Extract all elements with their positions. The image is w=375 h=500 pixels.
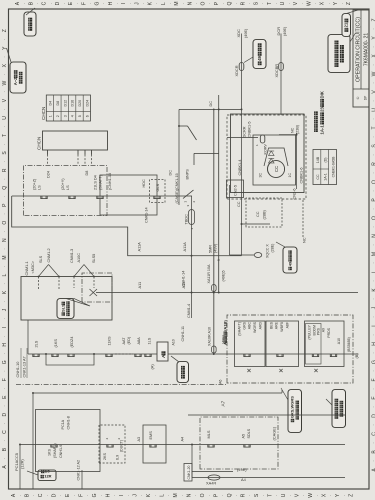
svg-text:A4: A4 <box>241 477 247 482</box>
dashed leads in SLS box <box>38 277 40 291</box>
svg-text:CNK1-12 A2: CNK1-12 A2 <box>77 460 81 481</box>
svg-text:MLS: MLS <box>206 430 211 438</box>
svg-text:(49V): (49V) <box>214 243 218 253</box>
chain boundary left group <box>16 384 227 386</box>
CHCN pin stubs <box>47 150 49 155</box>
svg-text:·: · <box>234 495 239 496</box>
svg-text:DC: DC <box>209 101 213 107</box>
svg-text:H: H <box>2 343 8 347</box>
svg-text:·: · <box>126 495 131 496</box>
svg-text:·: · <box>371 442 375 443</box>
wire XDC exit <box>241 34 243 256</box>
callout GRS WGRS note <box>288 390 302 433</box>
svg-text:R: R <box>372 162 375 166</box>
svg-text:D20: D20 <box>78 100 82 107</box>
callout SLS note <box>57 299 74 319</box>
svg-text:M: M <box>174 2 180 6</box>
svg-text:·: · <box>2 370 7 371</box>
svg-text:·: · <box>301 495 306 496</box>
svg-text:G: G <box>372 360 375 364</box>
wire 179 to coil <box>178 109 180 205</box>
chain wire left <box>20 444 345 446</box>
svg-text:CNH1-10: CNH1-10 <box>16 362 20 378</box>
svg-text:1A-1: 1A-1 <box>324 173 328 181</box>
wire vertical 244 <box>192 255 242 257</box>
svg-text:A5: A5 <box>242 434 246 439</box>
svg-text:Z: Z <box>372 18 375 21</box>
svg-text:A7: A7 <box>221 400 226 406</box>
switch 11KS <box>106 354 112 357</box>
svg-text:1KS: 1KS <box>48 448 52 456</box>
svg-text:B: B <box>28 1 34 5</box>
svg-text:F: F <box>81 2 87 5</box>
svg-text:2: 2 <box>56 115 60 117</box>
svg-text:Z: Z <box>346 2 352 5</box>
svg-text:O: O <box>200 493 206 497</box>
wire CN2 feed <box>229 185 231 255</box>
svg-text:ARD: ARD <box>259 322 263 330</box>
box EMS <box>143 425 166 463</box>
svg-text:Q: Q <box>227 493 233 497</box>
svg-text:E: E <box>2 395 8 399</box>
svg-text:A: A <box>11 493 17 497</box>
svg-text:D: D <box>55 1 61 5</box>
svg-text:·: · <box>62 3 67 4</box>
svg-text:·: · <box>2 301 7 302</box>
svg-text:M: M <box>2 256 8 260</box>
svg-text:·: · <box>207 3 212 4</box>
svg-text:Z: Z <box>2 29 8 32</box>
svg-text:·: · <box>287 3 292 4</box>
svg-text:·: · <box>2 196 7 197</box>
svg-text:Y: Y <box>333 1 339 5</box>
svg-text:M: M <box>372 252 375 256</box>
svg-text:P: P <box>213 493 219 497</box>
svg-text:X: X <box>372 54 375 58</box>
svg-text:1: 1 <box>255 144 259 146</box>
svg-text:·: · <box>101 3 106 4</box>
svg-text:·: · <box>2 458 7 459</box>
svg-text:·: · <box>315 495 320 496</box>
svg-text:P: P <box>2 203 8 207</box>
limit switch 21LS D4 SHAFT <box>97 196 103 199</box>
svg-text:·: · <box>371 298 375 299</box>
svg-text:23: 23 <box>319 107 324 112</box>
svg-text:ABC: ABC <box>248 322 252 330</box>
svg-text:CC: CC <box>274 166 279 172</box>
callout company english name <box>328 35 350 73</box>
junction dots bus <box>191 255 193 257</box>
wire horizontal bus 192 <box>191 196 193 318</box>
svg-text:·: · <box>180 495 185 496</box>
svg-text:A10: A10 <box>172 339 176 345</box>
svg-text:DP: DP <box>364 96 368 100</box>
svg-text:(B): (B) <box>354 353 359 359</box>
svg-text:4: 4 <box>71 115 75 117</box>
svg-text:CC: CC <box>237 201 241 207</box>
svg-text:(49E): (49E) <box>244 28 248 38</box>
svg-text:A9: A9 <box>322 328 326 332</box>
callout page 21 <box>342 14 351 37</box>
svg-text:·: · <box>31 495 36 496</box>
svg-text:·: · <box>371 370 375 371</box>
svg-text:CNBK1-6: CNBK1-6 <box>300 167 304 183</box>
svg-text:·: · <box>2 248 7 249</box>
svg-text:CNBK1-5: CNBK1-5 <box>248 121 252 137</box>
wire bus A11 <box>96 292 358 294</box>
svg-text:PC1A: PC1A <box>61 419 65 429</box>
svg-text:·: · <box>371 316 375 317</box>
svg-text:CNBK1-6A5B: CNBK1-6A5B <box>331 156 335 177</box>
switch EDZ4 <box>68 354 74 357</box>
svg-text:LS: LS <box>66 185 70 190</box>
svg-text:CC: CC <box>256 211 260 217</box>
svg-text:49: 49 <box>257 55 262 60</box>
clutch housing polygon <box>264 148 288 166</box>
svg-text:E: E <box>65 493 71 497</box>
svg-text:A11A: A11A <box>137 242 142 252</box>
svg-text:·: · <box>371 406 375 407</box>
svg-text:DCR: DCR <box>276 27 281 36</box>
chain box MLS SDLS <box>200 417 278 469</box>
svg-text:CN2-5: CN2-5 <box>234 185 238 196</box>
svg-text:11KS: 11KS <box>108 336 112 345</box>
callout see figure below <box>177 362 189 383</box>
svg-text:CNK1-20: CNK1-20 <box>187 465 191 479</box>
svg-text:(A): (A) <box>150 364 155 370</box>
svg-text:(CNH1-15: (CNH1-15 <box>108 173 112 190</box>
svg-text:DIK: DIK <box>319 90 324 98</box>
svg-text:HDC: HDC <box>142 179 146 187</box>
contact marks box1 <box>244 354 250 357</box>
svg-text:K: K <box>2 290 8 294</box>
svg-text:3C: 3C <box>259 173 263 178</box>
svg-text:·: · <box>167 3 172 4</box>
svg-text:(23B): (23B) <box>296 125 300 134</box>
relay number note text <box>314 111 318 132</box>
svg-text:14B: 14B <box>316 156 320 163</box>
svg-text:3: 3 <box>63 115 67 117</box>
svg-text:·: · <box>2 335 7 336</box>
svg-text:(CAGE): (CAGE) <box>272 426 277 440</box>
svg-text:M: M <box>173 493 179 497</box>
junction dots left <box>19 444 21 446</box>
svg-text:Q: Q <box>2 186 8 190</box>
svg-text:C: C <box>38 493 44 497</box>
callout A-Z coordinate region <box>10 62 26 93</box>
svg-text:BES: BES <box>270 321 274 329</box>
svg-text:D12: D12 <box>63 100 67 107</box>
svg-text:CNM1-2: CNM1-2 <box>47 248 51 262</box>
contact marks box2 <box>277 354 283 357</box>
svg-text:·: · <box>2 405 7 406</box>
svg-text:·: · <box>371 100 375 101</box>
relay group solid box <box>231 114 305 193</box>
svg-text:I: I <box>119 495 125 496</box>
wire line 85 <box>188 414 345 416</box>
svg-text:J: J <box>134 2 140 5</box>
svg-text:(49E): (49E) <box>283 26 287 36</box>
svg-text:T: T <box>267 494 273 497</box>
svg-text:LS: LS <box>38 185 42 190</box>
svg-text:6: 6 <box>85 115 89 117</box>
svg-text:·: · <box>128 3 133 4</box>
svg-text:CNH1-11: CNH1-11 <box>181 326 185 342</box>
svg-text:·: · <box>371 64 375 65</box>
switch 1LS <box>145 354 151 357</box>
svg-text:N: N <box>2 238 8 242</box>
svg-text:P: P <box>214 1 220 5</box>
svg-text:W: W <box>308 493 314 498</box>
svg-text:·: · <box>247 495 252 496</box>
sub box 1 <box>235 321 266 367</box>
svg-text:CHCN: CHCN <box>36 137 41 150</box>
contact marks box3 <box>312 354 318 357</box>
svg-text:X: X <box>2 63 8 67</box>
svg-text:4: 4 <box>105 438 109 440</box>
callout size note <box>332 390 346 428</box>
svg-text:6,9: 6,9 <box>116 455 120 460</box>
svg-text:EMS: EMS <box>149 431 153 440</box>
switch SDLS <box>244 445 250 448</box>
svg-text:1A-1: 1A-1 <box>319 125 324 135</box>
svg-text:·: · <box>181 3 186 4</box>
main chain wire A <box>28 353 358 355</box>
svg-text:2: 2 <box>192 201 196 203</box>
svg-text:·: · <box>342 495 347 496</box>
svg-text:1C: 1C <box>288 173 292 178</box>
svg-text:H: H <box>105 493 111 497</box>
boxed label CNK1-20 <box>184 464 192 482</box>
svg-text:·: · <box>288 495 293 496</box>
svg-text:·: · <box>2 423 7 424</box>
callout to page 12R (rotated) <box>38 470 56 481</box>
svg-text:·: · <box>58 495 63 496</box>
fuse XA11R 10A <box>212 285 217 292</box>
svg-text:·: · <box>2 440 7 441</box>
svg-text:·: · <box>371 424 375 425</box>
svg-text:1: 1 <box>190 228 194 230</box>
svg-text:V: V <box>2 98 8 102</box>
svg-text:·: · <box>260 3 265 4</box>
svg-text:·: · <box>88 3 93 4</box>
svg-text:XDC: XDC <box>236 29 241 38</box>
zener diodes KORV <box>269 159 275 164</box>
svg-text:K: K <box>146 493 152 497</box>
svg-text:KORV: KORV <box>264 144 268 155</box>
svg-text:·: · <box>75 3 80 4</box>
svg-text:·: · <box>166 495 171 496</box>
connector XDCR capsule <box>239 63 244 71</box>
SLS5 chain box <box>82 273 112 302</box>
svg-text:·: · <box>300 3 305 4</box>
svg-text:·: · <box>273 3 278 4</box>
svg-text:X: X <box>321 493 327 497</box>
diode symbol on bus <box>90 289 98 296</box>
svg-text:(49E): (49E) <box>237 467 247 472</box>
svg-text:F: F <box>78 494 84 497</box>
svg-text:(1KS: (1KS <box>54 339 58 348</box>
svg-text:·: · <box>371 28 375 29</box>
svg-text:·: · <box>153 495 158 496</box>
svg-text:O: O <box>201 2 207 6</box>
branch to CC 28B <box>242 223 271 225</box>
changeover switch SLS CNM1-1 <box>38 276 40 278</box>
svg-text:·: · <box>114 3 119 4</box>
callout to page 49 upper fig <box>253 40 266 69</box>
svg-text:(EDZ4: (EDZ4 <box>70 337 74 348</box>
wire fuse row <box>213 155 215 354</box>
svg-text:O: O <box>372 216 375 220</box>
svg-text:A11: A11 <box>137 282 142 289</box>
svg-text:E: E <box>68 1 74 5</box>
svg-text:D: D <box>51 493 57 497</box>
svg-text:V: V <box>293 1 299 5</box>
svg-text:D: D <box>372 414 375 418</box>
svg-text:(DUCT): (DUCT) <box>120 440 124 452</box>
svg-text:·: · <box>22 3 27 4</box>
svg-text:·: · <box>193 495 198 496</box>
svg-text:AAT: AAT <box>122 337 126 345</box>
svg-text:N: N <box>372 234 375 238</box>
svg-text:PC1ACC5: PC1ACC5 <box>14 453 19 471</box>
svg-text:2: 2 <box>117 438 121 440</box>
svg-text:PRS: PRS <box>317 327 321 335</box>
svg-text:(BS5655): (BS5655) <box>347 337 351 352</box>
svg-text:A4: A4 <box>181 437 185 442</box>
svg-text:Q: Q <box>372 180 375 184</box>
svg-text:2KS: 2KS <box>103 452 107 460</box>
svg-text:W: W <box>2 80 8 85</box>
svg-text:CNM1-4: CNM1-4 <box>187 304 191 318</box>
svg-text:Y: Y <box>372 36 375 40</box>
svg-text:CC: CC <box>316 174 320 180</box>
svg-text:·: · <box>194 3 199 4</box>
svg-text:(20+Y): (20+Y) <box>61 178 65 190</box>
svg-text:B: B <box>2 447 8 451</box>
svg-text:SLS: SLS <box>60 304 65 312</box>
svg-text:7K6MA000- 21: 7K6MA000- 21 <box>363 33 369 67</box>
svg-text:P: P <box>372 198 375 202</box>
relay group dashed box <box>227 115 306 199</box>
svg-text:J: J <box>132 494 138 497</box>
svg-text:B: B <box>24 493 30 497</box>
svg-text:T: T <box>372 126 375 129</box>
svg-text:GLS: GLS <box>156 183 160 191</box>
box PC1 group <box>36 410 101 472</box>
svg-text:(CAGE)(CNK1-15: (CAGE)(CNK1-15 <box>175 173 179 203</box>
svg-text:L: L <box>161 2 167 5</box>
svg-text:3: 3 <box>186 205 190 207</box>
changeover switch CNM1-3 A10C <box>73 276 75 278</box>
wire 296 <box>296 133 298 189</box>
svg-text:A6: A6 <box>219 380 223 384</box>
svg-text:·: · <box>2 109 7 110</box>
svg-text:(SHAFT): (SHAFT) <box>238 322 242 336</box>
svg-text:L: L <box>2 273 8 276</box>
svg-text:DCRR: DCRR <box>243 126 247 137</box>
svg-text:5MR: 5MR <box>209 245 213 253</box>
relay contact DCR <box>188 126 197 140</box>
svg-text:·: · <box>85 495 90 496</box>
svg-text:F: F <box>2 378 8 381</box>
wire DCR exit <box>280 34 282 116</box>
svg-text:V: V <box>294 493 300 497</box>
svg-text:B: B <box>372 450 375 454</box>
svg-text:·: · <box>328 495 333 496</box>
wire PC1A entry <box>19 445 21 489</box>
svg-text:S: S <box>254 493 260 497</box>
svg-text:·: · <box>72 495 77 496</box>
svg-text:R: R <box>240 493 246 497</box>
svg-text:T: T <box>2 134 8 137</box>
svg-text:·: · <box>2 91 7 92</box>
svg-text:H: H <box>108 1 114 5</box>
svg-text:U: U <box>280 1 286 5</box>
svg-text:·: · <box>2 74 7 75</box>
svg-text:(28B): (28B) <box>263 209 267 219</box>
svg-text:NC: NC <box>302 237 307 243</box>
svg-text:·: · <box>371 388 375 389</box>
bypass wire <box>46 354 94 365</box>
svg-text:N: N <box>187 1 193 5</box>
svg-text:D: D <box>2 412 8 416</box>
svg-text:CHCN: CHCN <box>41 107 46 120</box>
wire vertical 390 <box>179 108 242 110</box>
switch 1KS <box>52 354 58 357</box>
svg-text:·: · <box>326 3 331 4</box>
svg-text:A8A: A8A <box>137 337 141 345</box>
magnetic clutch CC circle <box>268 161 285 178</box>
svg-text:I: I <box>2 327 8 328</box>
wire top link <box>27 320 29 354</box>
A-part detail group chain box <box>223 320 228 345</box>
label AAT ED1 <box>115 353 133 355</box>
svg-text:D24: D24 <box>47 171 51 178</box>
svg-text:V: V <box>372 90 375 94</box>
svg-text:D8: D8 <box>56 101 60 106</box>
svg-text:·: · <box>141 3 146 4</box>
svg-text:·: · <box>220 495 225 496</box>
svg-text:·: · <box>371 172 375 173</box>
svg-text:WGRS: WGRS <box>253 321 257 333</box>
svg-text:·: · <box>340 3 345 4</box>
switch GLS in dashed box <box>150 180 166 203</box>
svg-text:Q: Q <box>227 2 233 6</box>
svg-text:CNK1-13 A7: CNK1-13 A7 <box>23 356 27 377</box>
svg-text:BNPS: BNPS <box>186 169 190 180</box>
relay contact table <box>313 150 337 185</box>
svg-text:XA10R A10: XA10R A10 <box>208 327 212 346</box>
svg-text:①: ① <box>356 96 360 100</box>
svg-text:D8: D8 <box>85 171 89 176</box>
wire long 33 <box>32 393 34 489</box>
svg-text:Z: Z <box>348 494 354 497</box>
svg-text:·: · <box>371 262 375 263</box>
svg-text:·: · <box>247 3 252 4</box>
svg-text:A~Z: A~Z <box>13 77 18 85</box>
sub box 2 <box>266 321 299 367</box>
svg-text:G: G <box>92 493 98 497</box>
svg-text:R: R <box>2 168 8 172</box>
svg-text:WBF5: WBF5 <box>280 322 284 332</box>
svg-text:21LS D4: 21LS D4 <box>94 175 98 190</box>
svg-text:C: C <box>372 432 375 436</box>
svg-text:DC: DC <box>169 170 173 176</box>
wire line 107 <box>33 392 282 394</box>
svg-text:NC: NC <box>291 127 295 133</box>
svg-text:9: 9 <box>217 259 221 261</box>
